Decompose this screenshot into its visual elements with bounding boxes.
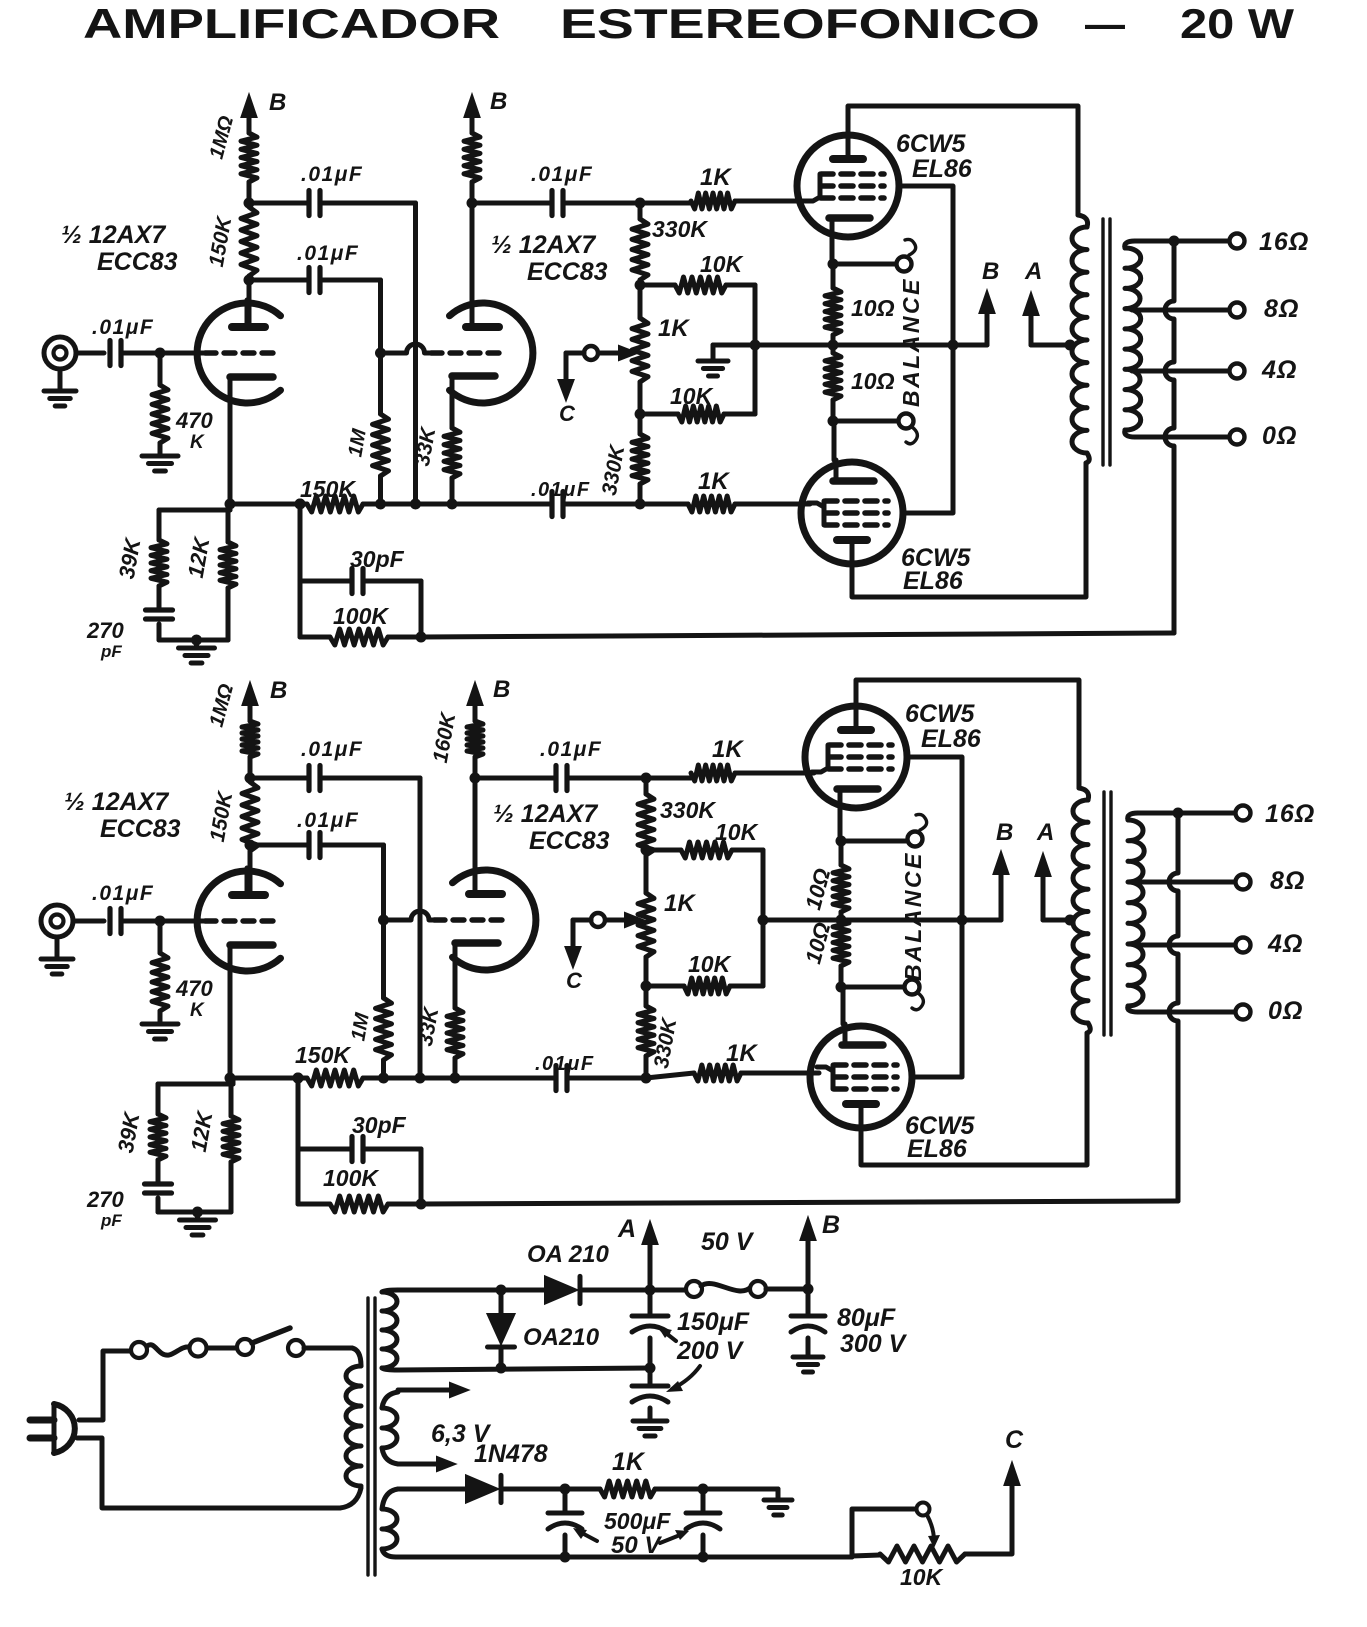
svg-text:½ 12AX7: ½ 12AX7 (64, 788, 169, 816)
svg-text:B: B (996, 819, 1013, 846)
resistor 10 ohm lower (833, 919, 849, 966)
svg-text:AMPLIFICADOR: AMPLIFICADOR (83, 0, 500, 47)
svg-text:1K: 1K (726, 1040, 758, 1067)
150K feedback resistor row (230, 502, 307, 507)
10ohm cathode chain (830, 239, 835, 264)
capacitor 500uF #1 (563, 1489, 568, 1513)
cathode V2 to 33K (450, 406, 455, 428)
svg-text:EL86: EL86 (912, 155, 973, 183)
svg-text:A: A (1036, 819, 1054, 846)
svg-text:8Ω: 8Ω (1270, 867, 1305, 895)
svg-text:.01μF: .01μF (535, 1053, 595, 1075)
capacitor 30pF (300, 579, 352, 584)
C takeoff arrow (566, 351, 584, 356)
cathode V1 down to row (228, 971, 233, 1078)
A arrow output (1041, 872, 1046, 920)
C rail arrow (965, 1485, 1012, 1554)
input jack ch2 (41, 905, 73, 937)
HV secondary winding (382, 1292, 397, 1368)
10K potentiometer (852, 1509, 916, 1557)
fuse 50V (650, 1288, 686, 1293)
transformer core (1102, 792, 1105, 1035)
output transformer primary (1079, 788, 1089, 800)
bottom wire + ground (158, 1210, 231, 1215)
svg-text:1K: 1K (612, 1448, 646, 1476)
capacitor .01uF to splitter (475, 776, 556, 781)
resistor 330K upper (632, 219, 648, 280)
resistor 1M plate (242, 721, 258, 757)
A rail arrow (645, 1285, 656, 1296)
svg-text:30pF: 30pF (350, 546, 405, 572)
svg-text:.01μF: .01μF (92, 316, 154, 339)
capacitor .01uF input (107, 909, 112, 934)
svg-text:½ 12AX7: ½ 12AX7 (61, 221, 166, 249)
resistor 10 ohm upper (825, 288, 841, 335)
HV top wire to diode (398, 1288, 545, 1293)
svg-text:A: A (1024, 258, 1042, 285)
svg-text:½ 12AX7: ½ 12AX7 (493, 800, 598, 828)
resistor 1K lower grid (694, 1065, 741, 1081)
mid vertical + ground (753, 285, 758, 414)
wire cap to grid node (121, 919, 160, 924)
bottom wire + ground (159, 638, 228, 643)
wire plate V2 down (473, 778, 478, 894)
capacitor 80uF 300V (806, 1289, 811, 1316)
anode wire lower tube to primary bottom (852, 463, 1086, 597)
wire plate V2 down (470, 203, 475, 327)
arrow to cap1 (662, 1330, 676, 1341)
wiper arrow of 1K pot (598, 351, 623, 356)
svg-text:4Ω: 4Ω (1261, 356, 1297, 384)
capacitor .01uF top coupling (249, 201, 309, 206)
arrow to cap 500 #1 (580, 1532, 597, 1541)
B rail arrow (803, 1284, 814, 1295)
svg-text:6CW5: 6CW5 (896, 130, 967, 158)
resistor 1M plate (241, 133, 257, 182)
anode wire lower tube to primary bottom (861, 1033, 1087, 1165)
node to feedback network (293, 1073, 304, 1084)
resistor 12K (226, 504, 231, 542)
feedback line to output 16ohm tap (388, 635, 421, 640)
svg-text:1N478: 1N478 (474, 1440, 548, 1468)
resistor 470K (158, 921, 163, 953)
splitter node top (635, 198, 646, 209)
ground below jack (58, 369, 63, 391)
tap 0 ohm (1128, 1006, 1138, 1012)
pentode 6CW5/EL86 lower ch1 (801, 462, 903, 564)
svg-text:470: 470 (175, 976, 213, 1001)
resistor 100K (300, 635, 330, 640)
resistor 330K lower (644, 986, 649, 1006)
resistor 1M grid leak (378, 353, 383, 414)
HV bottom wire (398, 1368, 650, 1370)
capacitor .01uF row (549, 492, 554, 517)
svg-text:16Ω: 16Ω (1265, 800, 1315, 828)
svg-text:150μF: 150μF (677, 1308, 750, 1336)
arrow to cap 500 #2 (660, 1535, 680, 1543)
tap 8 ohm (1132, 308, 1229, 313)
svg-text:200 V: 200 V (676, 1337, 745, 1365)
resistor 1K psu (600, 1481, 655, 1497)
feedback vertical with hops (1165, 241, 1174, 633)
screen grid bus (900, 186, 953, 513)
svg-text:B: B (822, 1211, 840, 1239)
svg-text:.01μF: .01μF (297, 242, 359, 265)
svg-text:EL86: EL86 (907, 1135, 968, 1163)
svg-text:100K: 100K (323, 1165, 379, 1191)
capacitor .01uF row (553, 1066, 558, 1091)
svg-text:.01μF: .01μF (540, 738, 602, 761)
wire plug to switch loop (79, 1351, 131, 1420)
output transformer secondary (1125, 248, 1141, 430)
svg-text:—: — (1085, 0, 1125, 47)
ground below 470K (142, 1022, 178, 1027)
resistor 100K (298, 1202, 330, 1207)
svg-text:10K: 10K (670, 383, 714, 409)
resistor 10K upper (646, 848, 681, 853)
mains plug (30, 1417, 54, 1424)
diode 1N478 (398, 1487, 466, 1492)
resistor 1K upper grid (646, 776, 691, 781)
svg-text:50 V: 50 V (701, 1228, 755, 1256)
resistor 330K upper (638, 794, 654, 855)
pentode 6CW5/EL86 lower ch2 (810, 1026, 912, 1128)
node to feedback network (295, 499, 306, 510)
svg-text:C: C (559, 401, 576, 426)
resistor 150K (242, 782, 258, 851)
svg-text:1K: 1K (664, 890, 696, 917)
resistor plate V2 (160K) (467, 721, 483, 757)
transformer core (1101, 219, 1104, 465)
ground below 470K (142, 454, 178, 459)
tap 8 ohm (1135, 880, 1235, 885)
arrow to cap2 (672, 1366, 700, 1389)
svg-text:80μF: 80μF (837, 1304, 896, 1332)
wire to grid node V2 (378, 280, 383, 353)
svg-text:EL86: EL86 (921, 725, 982, 753)
B supply arrow stage2 (473, 701, 478, 721)
svg-text:10Ω: 10Ω (851, 295, 895, 321)
svg-text:A: A (617, 1215, 636, 1243)
output transformer primary (1078, 215, 1088, 227)
svg-text:B: B (270, 677, 287, 704)
tap 4 ohm (1135, 943, 1235, 948)
capacitor .01uF to splitter (472, 201, 552, 206)
grid wire with hop to V2 (384, 911, 435, 920)
svg-text:500μF: 500μF (604, 1508, 671, 1534)
resistor plate V2 (None) (464, 133, 480, 182)
svg-text:½ 12AX7: ½ 12AX7 (491, 231, 596, 259)
svg-text:20 W: 20 W (1180, 0, 1294, 47)
triode V1 1/2 12AX7 ch2 (197, 871, 280, 971)
svg-text:1K: 1K (700, 164, 732, 191)
svg-text:1K: 1K (658, 315, 690, 342)
A arrow output (1029, 311, 1034, 345)
svg-text:OA210: OA210 (523, 1324, 600, 1351)
wire cap to grid node (121, 351, 160, 356)
feedback vertical with hops (1169, 813, 1178, 1201)
svg-text:100K: 100K (333, 603, 389, 629)
diode OA210 series (545, 1276, 577, 1303)
svg-text:4Ω: 4Ω (1267, 930, 1303, 958)
svg-text:pF: pF (100, 642, 122, 661)
mid vertical + ground (761, 850, 766, 986)
resistor 330K lower (638, 414, 643, 434)
tap 16 ohm (1125, 241, 1135, 248)
grid wire with hop to V2 (381, 344, 432, 353)
anode wire upper tube to primary top (856, 680, 1079, 788)
wiper arrow of 1K pot (605, 918, 629, 923)
tap 0 ohm (1125, 430, 1135, 437)
node plate row (244, 198, 255, 209)
svg-text:ESTEREOFONICO: ESTEREOFONICO (560, 0, 1040, 47)
svg-text:30pF: 30pF (352, 1112, 407, 1138)
capacitor .01uF second coupling (244, 275, 255, 286)
resistor 150K (241, 207, 257, 276)
bias network 39K 12K 270pF (231, 1078, 236, 1084)
svg-text:BALANCE: BALANCE (900, 851, 926, 981)
svg-text:C: C (1005, 1426, 1024, 1454)
svg-text:150K: 150K (300, 476, 356, 502)
diode OA210 shunt (499, 1290, 504, 1314)
6.3V winding (382, 1408, 397, 1448)
resistor 1K lower grid (688, 496, 735, 512)
svg-text:300 V: 300 V (840, 1330, 908, 1358)
svg-text:0Ω: 0Ω (1262, 422, 1297, 450)
node plate row (245, 773, 256, 784)
cathode V2 to 33K (453, 973, 458, 1008)
svg-text:.01μF: .01μF (301, 738, 363, 761)
capacitor 500uF #2 (701, 1489, 706, 1513)
input jack ch1 (44, 337, 76, 369)
svg-text:BALANCE: BALANCE (898, 277, 924, 407)
svg-text:6CW5: 6CW5 (905, 700, 976, 728)
svg-text:1K: 1K (712, 736, 744, 763)
feedback line to output 16ohm tap (388, 1202, 421, 1207)
svg-text:330K: 330K (660, 797, 716, 823)
svg-text:K: K (190, 1000, 205, 1021)
cathode lead lower tube (841, 987, 846, 1024)
svg-text:10K: 10K (688, 951, 732, 977)
resistor 10 ohm upper (833, 865, 849, 912)
10ohm cathode chain (838, 810, 843, 841)
splitter node top (641, 773, 652, 784)
svg-text:150K: 150K (295, 1042, 351, 1068)
screen grid bus (908, 757, 962, 1077)
mains switch (131, 1342, 147, 1358)
svg-text:10Ω: 10Ω (851, 368, 895, 394)
6.3V arrow bottom (398, 1462, 441, 1467)
tap 4 ohm (1132, 369, 1229, 374)
C takeoff arrow (573, 918, 591, 923)
triode V2 1/2 12AX7 ch2 (453, 870, 536, 970)
wire corner down to 150K row (418, 778, 423, 1078)
wire node to tube V1 grid (160, 919, 205, 924)
svg-text:OA 210: OA 210 (527, 1241, 609, 1268)
resistor 10K lower (646, 984, 684, 989)
svg-text:10K: 10K (900, 1564, 944, 1590)
svg-text:0Ω: 0Ω (1268, 997, 1303, 1025)
capacitor .01uF second coupling (245, 840, 256, 851)
resistor 1M grid leak (381, 920, 386, 998)
ground hang psu (776, 1489, 781, 1500)
wire jack to input cap (73, 919, 104, 924)
svg-text:ECC83: ECC83 (529, 827, 610, 855)
triode V1 1/2 12AX7 ch1 (197, 303, 280, 403)
B arrow output (833, 343, 987, 348)
svg-text:470: 470 (175, 408, 213, 433)
svg-text:.01μF: .01μF (531, 163, 593, 186)
cathode V1 down to row (228, 403, 233, 504)
LV winding (382, 1509, 397, 1549)
svg-text:.01μF: .01μF (301, 163, 363, 186)
B supply arrow stage1 (247, 113, 252, 133)
svg-text:8Ω: 8Ω (1264, 295, 1299, 323)
PSU transformer primary winding (352, 1348, 361, 1366)
svg-text:B: B (493, 676, 510, 703)
svg-text:ECC83: ECC83 (527, 258, 608, 286)
pentode 6CW5/EL86 upper ch1 (797, 135, 899, 237)
triode V2 1/2 12AX7 ch1 (450, 303, 533, 403)
1K pot body (638, 285, 643, 318)
ground below jack (55, 937, 60, 959)
svg-text:K: K (190, 432, 205, 453)
wire jack to input cap (76, 351, 104, 356)
B supply arrow stage2 (470, 113, 475, 133)
resistor 12K (229, 1078, 234, 1116)
wire corner down to 150K row (413, 203, 418, 504)
svg-text:270: 270 (86, 618, 124, 643)
bottom LV wire (396, 1555, 852, 1560)
node grid V1 (155, 916, 166, 927)
resistor 10 ohm lower (825, 353, 841, 400)
svg-text:.01μF: .01μF (92, 882, 154, 905)
wire mid to 10ohm center (763, 918, 841, 923)
bias network 39K 12K 270pF (228, 504, 233, 510)
capacitor 150uF stack (648, 1290, 653, 1316)
B arrow output (841, 918, 1001, 923)
svg-text:10K: 10K (700, 251, 744, 277)
PSU transformer core (366, 1298, 369, 1575)
resistor 10K lower (640, 412, 678, 417)
tap 16 ohm (1128, 813, 1138, 820)
B supply arrow stage1 (248, 701, 253, 721)
wire mid to 10ohm center (755, 343, 833, 348)
cathode lead lower tube (832, 421, 837, 460)
svg-text:B: B (490, 88, 507, 115)
svg-text:B: B (269, 89, 286, 116)
6.3V arrow top (398, 1388, 454, 1393)
wire node to tube V1 grid (160, 351, 205, 356)
wire plug lower to primary bottom (77, 1438, 340, 1508)
resistor 470K (158, 353, 163, 385)
svg-text:ECC83: ECC83 (97, 248, 178, 276)
svg-text:.01μF: .01μF (297, 809, 359, 832)
output transformer secondary (1128, 820, 1144, 1006)
capacitor .01uF input (107, 341, 112, 366)
resistor 1K upper grid (640, 201, 691, 206)
anode wire upper tube to primary top (848, 106, 1078, 215)
wire to grid node V2 (381, 845, 386, 920)
capacitor 30pF (298, 1147, 352, 1152)
svg-text:10K: 10K (715, 819, 759, 845)
svg-text:330K: 330K (652, 216, 708, 242)
svg-text:B: B (982, 258, 999, 285)
150K feedback resistor row (230, 1076, 307, 1081)
capacitor .01uF top coupling (250, 776, 309, 781)
svg-text:ECC83: ECC83 (100, 815, 181, 843)
pentode 6CW5/EL86 upper ch2 (805, 706, 907, 808)
svg-text:pF: pF (100, 1211, 122, 1230)
svg-text:16Ω: 16Ω (1259, 228, 1309, 256)
svg-text:270: 270 (86, 1187, 124, 1212)
svg-text:EL86: EL86 (903, 567, 964, 595)
svg-text:1K: 1K (698, 468, 730, 495)
node grid V1 (155, 348, 166, 359)
svg-text:C: C (566, 968, 583, 993)
resistor 10K upper (640, 283, 675, 288)
svg-text:.01μF: .01μF (531, 479, 591, 501)
1K pot body (644, 850, 649, 893)
